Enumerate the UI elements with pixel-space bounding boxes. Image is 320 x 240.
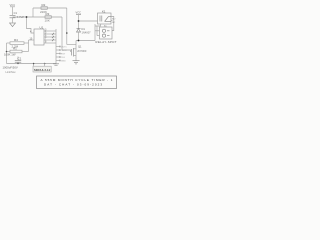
wire top branch — [33, 7, 67, 9]
wire coil jog — [95, 24, 101, 26]
junction dot D — [66, 32, 68, 34]
IC right pin 1 — [44, 30, 56, 32]
wire gate corner — [62, 50, 71, 52]
svg-text:OUT2: OUT2 — [61, 50, 68, 52]
svg-text:Q1: Q1 — [78, 44, 82, 48]
module stub dot A — [33, 63, 34, 64]
svg-text:1000uF/50V: 1000uF/50V — [3, 65, 18, 69]
wire coil return vertical — [94, 24, 96, 41]
IC right pin 2 — [44, 33, 56, 35]
wire contact right 2 — [111, 20, 113, 22]
svg-text:R2: R2 — [42, 3, 46, 7]
header stub 4 — [56, 56, 60, 58]
svg-text:4.7uF: 4.7uF — [17, 15, 25, 19]
wire left rail — [6, 43, 8, 64]
svg-text:NC: NC — [112, 22, 116, 24]
junction dot F — [17, 63, 18, 64]
junction dot B — [78, 20, 80, 22]
connector stubs left — [95, 26, 100, 36]
svg-text:OUT1: OUT1 — [61, 47, 68, 49]
IC right pin 3 — [44, 36, 56, 38]
resistor R3 — [45, 16, 51, 19]
capacitor C1 — [10, 16, 16, 23]
svg-text:R4: R4 — [14, 38, 18, 42]
module stub A — [33, 63, 35, 66]
svg-text:1N4007: 1N4007 — [82, 30, 92, 34]
connector circle B — [102, 34, 105, 37]
connector J1 box — [100, 27, 113, 39]
wire hop pin2 — [52, 33, 54, 35]
relay contact — [105, 17, 112, 22]
diode D1 — [77, 21, 81, 41]
svg-text:GND: GND — [61, 61, 66, 63]
power VCC2 — [76, 15, 81, 21]
header pin circle 4 — [59, 56, 60, 57]
resistor R1 — [7, 50, 29, 53]
capacitor C2 — [15, 57, 21, 64]
header stub 5 — [56, 60, 60, 62]
svg-text:AC: AC — [104, 25, 107, 28]
wire ladder left vertical — [32, 8, 34, 17]
IC right pin 5 — [44, 42, 56, 44]
wire R4 net — [24, 42, 29, 44]
svg-text:RELAY-SPDT: RELAY-SPDT — [96, 40, 117, 44]
header stub 3 — [56, 53, 60, 55]
svg-text:2N7000: 2N7000 — [77, 49, 87, 53]
svg-text:Link/Nov: Link/Nov — [6, 70, 17, 74]
wire drain corner — [67, 44, 76, 46]
svg-text:K1: K1 — [102, 9, 106, 13]
resistor R4 — [7, 42, 25, 45]
svg-text:RST: RST — [61, 54, 66, 56]
svg-text:M0DUL3-12: M0DUL3-12 — [34, 68, 51, 72]
wire bottom rail — [7, 63, 57, 65]
wire relay coil feed — [79, 20, 98, 22]
junction dot C — [78, 40, 80, 42]
title block box — [37, 76, 117, 89]
module stub B — [44, 63, 46, 66]
wire VCC rail to ladder — [13, 16, 63, 18]
svg-text:VCC: VCC — [10, 3, 16, 7]
node jog to pin — [27, 17, 35, 33]
ground GND3 — [73, 61, 80, 64]
header stub 1 — [56, 46, 60, 48]
wire right vertical outer — [66, 8, 68, 45]
ground GND2 — [53, 64, 59, 65]
wire contact right — [111, 17, 114, 31]
svg-text:A 555M MONTH CYCLE TIMER - 1: A 555M MONTH CYCLE TIMER - 1 — [41, 78, 113, 82]
wire hop pin3 — [52, 36, 54, 38]
junction dot E — [6, 51, 8, 53]
svg-text:NO: NO — [112, 18, 116, 20]
module box — [33, 66, 51, 72]
header pin circle 2 — [59, 49, 60, 50]
bus vertical — [55, 29, 57, 64]
junction dot A — [26, 16, 28, 18]
wire drain vertical — [75, 41, 77, 56]
ground GND1 — [9, 23, 16, 27]
svg-text:10K: 10K — [45, 19, 50, 23]
svg-text:R1: R1 — [13, 46, 17, 50]
wire flyback bottom — [76, 40, 95, 42]
connector ticks inside — [107, 31, 110, 36]
svg-text:C1: C1 — [18, 56, 22, 60]
svg-text:DAT - CHAT - 03-09-2023: DAT - CHAT - 03-09-2023 — [44, 82, 102, 86]
IC U1 — [34, 29, 44, 45]
header pin circle 5 — [59, 60, 60, 61]
transistor Q1 — [72, 48, 77, 61]
module stub dot B — [44, 63, 45, 64]
wire hop pin4 — [52, 39, 54, 41]
svg-text:U1: U1 — [40, 26, 44, 30]
wire pin L2 — [29, 39, 35, 41]
wire right vertical inner — [61, 17, 63, 50]
svg-text:VCC: VCC — [76, 10, 82, 14]
svg-text:100K 1W: 100K 1W — [4, 52, 16, 56]
relay coil — [100, 16, 102, 22]
resistor R2 — [41, 7, 47, 10]
power VCC1 — [10, 7, 15, 15]
svg-text:R3: R3 — [46, 12, 50, 16]
header stub 2 — [56, 49, 60, 51]
connector circle A — [102, 29, 105, 32]
IC right pin 4 — [44, 39, 56, 41]
svg-text:CLK: CLK — [61, 57, 66, 59]
relay K1 box — [98, 13, 112, 24]
header pin circle 1 — [59, 46, 60, 47]
header pin circle 3 — [59, 53, 60, 54]
